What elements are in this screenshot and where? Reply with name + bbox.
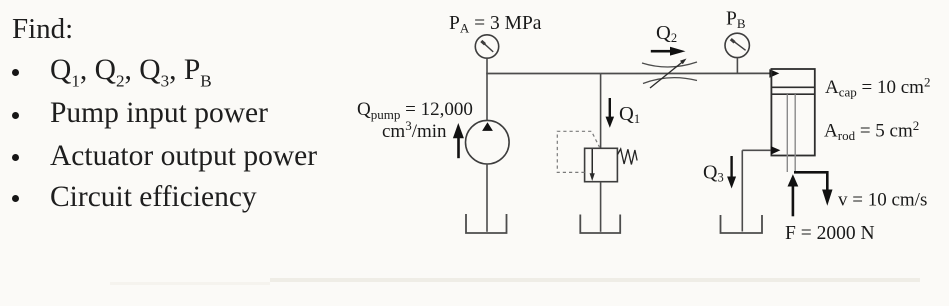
flow control valve adjustment arrow (650, 62, 683, 89)
wire relief valve to tank T2 (600, 182, 602, 232)
svg-text:v = 10 cm/s: v = 10 cm/s (838, 190, 927, 211)
bullet 4 (12, 195, 19, 202)
wire pump to tank T1 (486, 164, 488, 232)
arrow F force up (788, 174, 799, 216)
svg-text:Q1: Q1 (619, 103, 640, 126)
label bullet line Actuator output power (50, 140, 317, 173)
pump flow triangle (482, 122, 493, 131)
svg-text:Arod = 5 cm2: Arod = 5 cm2 (824, 118, 919, 143)
bullet 2 (12, 112, 19, 119)
pressure gauge PB (725, 33, 749, 57)
wire gauge PB stem (736, 58, 738, 74)
svg-text:Acap = 10 cm2: Acap = 10 cm2 (825, 74, 930, 99)
tank T1 under pump (466, 214, 507, 233)
tank T3 drain (721, 215, 763, 233)
arrow Q3 down (727, 156, 736, 189)
wire rod-end port line (742, 149, 771, 151)
pressure gauge PA (475, 35, 498, 58)
svg-text:Qpump = 12,000: Qpump = 12,000 (357, 99, 473, 122)
pump P1 (466, 120, 510, 164)
arrow v velocity (right then down) (794, 171, 833, 206)
tank T2 under relief valve (580, 215, 620, 234)
faint artifact streak bottom (270, 278, 920, 282)
svg-text:Q2: Q2 (656, 22, 677, 45)
label bullet line Pump input power (50, 97, 268, 130)
arrow Qpump up (453, 123, 464, 158)
bullet 3 (12, 154, 19, 161)
flow control valve V2 lower arc (643, 78, 697, 84)
wire gauge PA stem (486, 58, 488, 73)
arrow into cylinder rod port (771, 146, 781, 155)
relief valve internal arrow (590, 149, 595, 181)
relief valve V1 body (585, 148, 618, 181)
label bullet line Circuit efficiency (50, 181, 257, 214)
wire main line relief branch to cylinder (601, 72, 771, 74)
svg-text:PA = 3 MPa: PA = 3 MPa (449, 13, 542, 36)
relief valve spring (618, 149, 638, 165)
svg-text:PB: PB (726, 8, 746, 31)
wire rod-end down to tank T3 (741, 150, 743, 231)
wire relief branch down (600, 74, 602, 149)
arrow Q1 down (606, 98, 615, 128)
svg-text:cm3/min: cm3/min (382, 118, 447, 142)
label "Find:" (12, 13, 73, 46)
cylinder rod (786, 94, 788, 172)
arrow into cylinder cap port (769, 69, 779, 78)
cylinder piston (771, 86, 814, 88)
wire main line pump junction to relief branch (486, 73, 600, 75)
relief valve pilot dashed line (557, 131, 599, 172)
label bullet line Q1 Q2 Q3 PB (50, 54, 212, 87)
flow control valve V2 upper arc (642, 62, 697, 67)
wire pump outlet (junction down to pump) (486, 74, 488, 121)
svg-text:F = 2000 N: F = 2000 N (785, 223, 875, 244)
bullet 1 (12, 69, 19, 76)
arrow Q2 right (651, 47, 686, 56)
cylinder A1 barrel (771, 69, 814, 156)
svg-text:Q3: Q3 (703, 162, 724, 185)
